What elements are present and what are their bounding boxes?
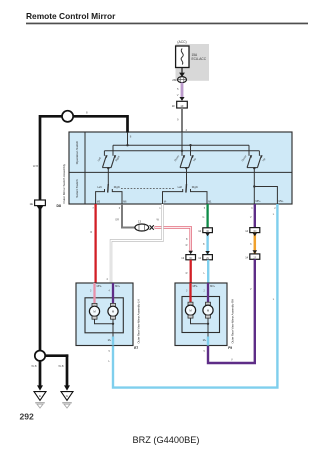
svg-text:5: 5 xyxy=(177,87,179,91)
mirror assembly RH box: Outer Rear View Mirror Assembly RH xyxy=(175,283,227,346)
svg-text:3D: 3D xyxy=(253,230,256,233)
svg-text:V: V xyxy=(250,287,252,291)
svg-text:Outer Rear View Mirror Assembl: Outer Rear View Mirror Assembly RH xyxy=(231,299,235,344)
svg-text:L: L xyxy=(204,271,206,275)
wire: pink internal to motor M1 LH xyxy=(90,283,102,304)
switch group 2 Down/Up (operation) xyxy=(173,144,197,169)
wire: violet V from fuse to connector 1F xyxy=(177,83,185,101)
svg-text:6: 6 xyxy=(250,242,252,246)
wire: fuse output stub with male terminal arrow xyxy=(179,68,185,78)
wire: internal common of LH motors xyxy=(95,319,115,336)
svg-text:E7: E7 xyxy=(134,346,138,350)
fuse ECU-ACC 15A xyxy=(176,46,207,68)
select switch 2 Left/Right xyxy=(163,168,208,204)
ground IE (left) xyxy=(34,385,46,408)
svg-text:MV+: MV+ xyxy=(279,200,285,203)
svg-text:W: W xyxy=(157,218,160,222)
wire: W white from pin 1 to mirror LH pin 4 xyxy=(106,204,162,283)
svg-text:F9: F9 xyxy=(228,346,232,350)
label: Select Switch xyxy=(75,179,79,198)
svg-text:MH+: MH+ xyxy=(256,200,262,203)
svg-text:MH+: MH+ xyxy=(97,285,103,288)
wire: internal bus1 xyxy=(113,144,249,146)
svg-text:8: 8 xyxy=(186,237,188,241)
svg-text:V: V xyxy=(250,215,252,219)
svg-text:14: 14 xyxy=(245,256,248,260)
svg-text:Right: Right xyxy=(192,185,198,189)
svg-text:ECU-ACC: ECU-ACC xyxy=(192,57,207,61)
svg-text:3D: 3D xyxy=(206,230,209,233)
fuse block shading xyxy=(176,44,210,81)
svg-text:4: 4 xyxy=(186,128,188,132)
svg-text:Outer Mirror Switch Assembly: Outer Mirror Switch Assembly xyxy=(62,163,66,203)
svg-text:Outer Rear View Mirror Assembl: Outer Rear View Mirror Assembly LH xyxy=(137,299,141,343)
svg-text:V: V xyxy=(231,357,233,361)
wire: O orange between connectors 14 xyxy=(250,233,257,254)
wire: red internal to motor M1 RH xyxy=(186,283,198,304)
svg-text:MH+: MH+ xyxy=(193,285,199,288)
connector 14 lower (rect) xyxy=(245,254,260,260)
svg-text:M-: M- xyxy=(164,200,167,203)
svg-text:1F: 1F xyxy=(180,104,184,108)
motor M2 (mirror LH vertical) xyxy=(108,303,118,319)
connector 14 upper (rect) xyxy=(245,228,260,233)
wire: internal drop from pin 4 to bus2 xyxy=(181,133,183,156)
motor M1 (mirror LH horizontal) xyxy=(89,303,99,319)
wire: group3 common to pins MH+/MV+ xyxy=(253,168,277,204)
switch box: Outer Mirror Switch Assembly D8 xyxy=(69,132,292,204)
wire: internal common of RH motors xyxy=(191,318,210,336)
switch group 3 Down/Up (operation) xyxy=(240,145,266,169)
svg-text:W-B: W-B xyxy=(33,164,38,168)
wire: G green from pin 5 to connector 12 xyxy=(202,204,207,228)
svg-text:MV+: MV+ xyxy=(115,285,121,288)
label: Operation Switch xyxy=(75,140,79,164)
wire: W-B black down left side xyxy=(39,209,42,351)
mechanical link (dashed) between select switches xyxy=(121,188,175,190)
title: Remote Control Mirror xyxy=(26,11,308,24)
svg-text:IG: IG xyxy=(66,396,69,398)
svg-text:3: 3 xyxy=(251,207,253,210)
svg-text:7: 7 xyxy=(92,207,94,210)
wire: V violet from connector 14 looping to mirror RH pin 5 xyxy=(208,259,255,363)
node: open junction circle (ground split) xyxy=(35,351,45,361)
select switch 1 Left/Right xyxy=(96,168,122,204)
svg-text:D8: D8 xyxy=(57,204,61,208)
svg-text:2M: 2M xyxy=(172,78,177,82)
svg-text:L: L xyxy=(273,297,275,301)
switch box pin labels xyxy=(97,200,284,204)
svg-text:Left: Left xyxy=(178,185,183,189)
wire: GR gray from pin 6 to oval connector xyxy=(115,204,135,228)
svg-text:14: 14 xyxy=(245,229,248,233)
wire: gray from connector 1F to switch pin 4 xyxy=(177,108,188,133)
svg-text:G: G xyxy=(202,215,204,219)
svg-text:W-B: W-B xyxy=(31,364,36,368)
svg-text:13: 13 xyxy=(138,220,141,224)
wire: light blue internal RH pin 5 xyxy=(203,337,208,353)
svg-text:L: L xyxy=(108,359,110,363)
svg-text:13: 13 xyxy=(181,256,184,260)
wire: internal bus2 xyxy=(104,150,259,152)
svg-text:Left: Left xyxy=(97,185,102,189)
wire: L light blue from pin 2 looping to mirror LH pin 5 xyxy=(108,204,277,388)
label: F9 Outer Rear View Mirror Assembly RH xyxy=(228,299,234,350)
wire: W-B branch to right ground xyxy=(45,354,69,386)
wire: W-B thick black from switch pin 8 to left side xyxy=(33,111,132,201)
svg-text:M+: M+ xyxy=(108,339,112,342)
wire: purple internal to motor M2 RH xyxy=(204,283,216,304)
svg-text:2: 2 xyxy=(274,207,276,210)
connector 13 (rect) xyxy=(181,255,195,261)
svg-text:1E: 1E xyxy=(29,202,33,206)
wire: L light blue between connectors 12 xyxy=(203,233,210,255)
switch group 1 Left/Right (operation) xyxy=(96,145,121,169)
svg-text:Operation Switch: Operation Switch xyxy=(75,140,79,164)
svg-text:IE: IE xyxy=(39,396,42,398)
svg-text:12: 12 xyxy=(198,229,201,233)
svg-text:5: 5 xyxy=(203,350,205,353)
wire: L light blue from connector 12 to mirror RH pin 2 xyxy=(204,260,209,283)
svg-text:292: 292 xyxy=(20,412,35,422)
footer: BRZ (G4400BE) xyxy=(133,435,200,445)
motor M2 (mirror RH vertical) xyxy=(203,302,213,318)
svg-text:5: 5 xyxy=(108,350,110,353)
svg-text:M+: M+ xyxy=(203,339,207,342)
svg-text:L: L xyxy=(273,212,275,216)
svg-text:12: 12 xyxy=(198,256,201,260)
connector 12 upper (rect) xyxy=(198,228,212,233)
ground IG (right) xyxy=(61,385,73,408)
label: E7 Outer Rear View Mirror Assembly LH xyxy=(134,299,140,350)
node: open junction circle on ground line (top) xyxy=(62,111,73,122)
connector 13 (oval junction) xyxy=(135,220,154,231)
svg-text:8: 8 xyxy=(203,242,205,246)
wire: internal drop from pin 8 to bus1 xyxy=(126,133,128,147)
wire: R red from connector 13 to mirror RH pin 3 xyxy=(186,260,191,283)
wire: pink (double) from oval connector to connector 13 xyxy=(155,228,194,255)
svg-text:1F: 1F xyxy=(172,104,176,108)
svg-text:Remote Control Mirror: Remote Control Mirror xyxy=(26,11,116,21)
svg-text:W-B: W-B xyxy=(58,364,63,368)
wire: light blue internal LH pin 5 xyxy=(108,337,113,353)
svg-text:Right: Right xyxy=(114,185,120,189)
wire: R red from pin 7 to mirror LH pin 3 xyxy=(90,204,95,283)
page number 292 xyxy=(20,412,35,422)
connector 2M (oval junction) xyxy=(172,77,186,83)
switch box pin numbers xyxy=(92,207,276,210)
wire: W-B below junction to left ground xyxy=(31,361,40,386)
svg-text:9: 9 xyxy=(177,118,179,122)
svg-text:GR: GR xyxy=(115,218,119,222)
svg-text:1: 1 xyxy=(159,207,161,210)
connector 12 lower (rect) xyxy=(198,255,212,261)
svg-text:R: R xyxy=(186,271,188,275)
svg-text:BRZ (G4400BE): BRZ (G4400BE) xyxy=(133,435,200,445)
svg-text:3D: 3D xyxy=(189,257,192,260)
motor M1 (mirror RH horizontal) xyxy=(185,302,195,318)
wire: purple internal to motor M2 LH xyxy=(109,283,121,304)
svg-text:5: 5 xyxy=(204,207,206,210)
svg-text:Select Switch: Select Switch xyxy=(75,179,79,198)
svg-text:(ACC): (ACC) xyxy=(177,40,186,44)
svg-text:6: 6 xyxy=(119,207,121,210)
svg-text:4: 4 xyxy=(106,277,108,281)
connector 1E on ground wire xyxy=(29,200,45,211)
label: D8 Outer Mirror Switch Assembly xyxy=(57,163,67,208)
connector 1F (junction connector) xyxy=(172,101,188,108)
fuse F ECU-ACC label (ACC) xyxy=(177,40,186,44)
svg-text:V: V xyxy=(177,93,179,97)
mirror assembly LH box: Outer Rear View Mirror Assembly LH xyxy=(76,283,133,346)
wire: V violet from pin 3 to connector 14 xyxy=(250,204,255,228)
svg-text:MV+: MV+ xyxy=(210,285,216,288)
svg-text:R: R xyxy=(90,230,92,234)
svg-text:R: R xyxy=(186,243,188,247)
svg-text:8: 8 xyxy=(86,111,88,115)
svg-text:2E: 2E xyxy=(206,257,209,260)
